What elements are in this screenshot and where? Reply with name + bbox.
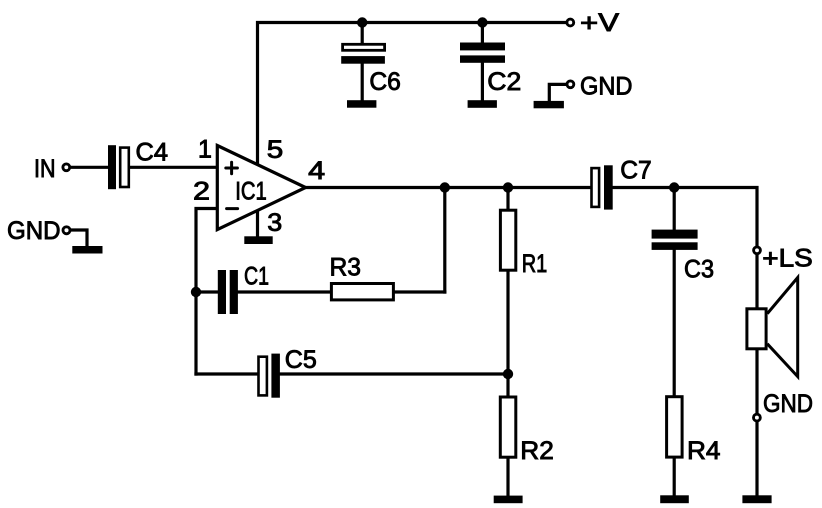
svg-text:R2: R2 — [520, 437, 554, 465]
svg-text:IN: IN — [34, 155, 56, 183]
svg-text:C2: C2 — [487, 68, 521, 96]
svg-text:C3: C3 — [684, 256, 714, 284]
svg-text:GND: GND — [580, 72, 633, 100]
svg-text:2: 2 — [193, 178, 210, 206]
svg-text:GND: GND — [7, 217, 61, 245]
svg-text:C4: C4 — [136, 139, 169, 167]
svg-text:5: 5 — [267, 136, 284, 164]
svg-text:+LS: +LS — [762, 245, 813, 273]
svg-text:1: 1 — [198, 136, 212, 164]
svg-text:R1: R1 — [522, 250, 548, 278]
svg-text:C6: C6 — [369, 68, 401, 96]
svg-text:C7: C7 — [620, 156, 652, 184]
svg-text:C1: C1 — [244, 263, 269, 291]
svg-text:4: 4 — [308, 157, 325, 185]
svg-text:GND: GND — [763, 390, 813, 418]
svg-text:R3: R3 — [330, 254, 362, 282]
svg-text:C5: C5 — [285, 346, 317, 374]
svg-text:+V: +V — [580, 9, 619, 37]
svg-text:IC1: IC1 — [235, 177, 266, 205]
svg-text:3: 3 — [267, 209, 282, 237]
svg-text:R4: R4 — [687, 437, 721, 465]
